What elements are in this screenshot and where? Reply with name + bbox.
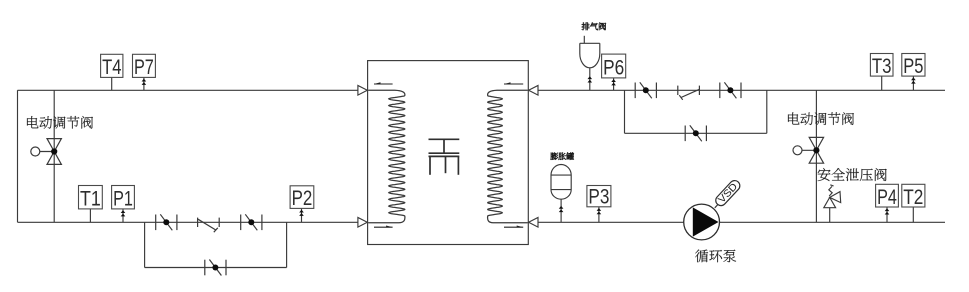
air vent arrow [588, 76, 593, 79]
label 排气阀 [582, 23, 606, 31]
butterfly valve V2 (bottom-left) [241, 214, 262, 230]
svg-text:T2: T2 [903, 185, 923, 209]
svg-text:P7: P7 [134, 55, 154, 79]
HE inlet arrow top-left [358, 86, 367, 96]
butterfly valve V5 (top-right) [720, 82, 741, 98]
instrument box P6 [602, 54, 626, 80]
wire P7 connector [143, 77, 145, 90]
svg-text:T1: T1 [80, 187, 101, 211]
HE flow arrow top-right [504, 83, 523, 85]
P2 arrow [299, 210, 304, 213]
svg-text:P6: P6 [603, 56, 624, 80]
instrument box T4 [101, 54, 123, 79]
svg-text:T4: T4 [102, 55, 121, 79]
wire P1 connector [122, 209, 124, 222]
wire bypass left drop [144, 222, 146, 267]
motor control valve (left) 电动调节阀 [31, 139, 62, 165]
instrument box T1 [79, 186, 103, 211]
instrument box P2 [290, 186, 314, 210]
wire P6 connector [613, 78, 615, 90]
pump VSD drive [714, 178, 743, 208]
wire left end connector [17, 90, 19, 222]
butterfly valve V4 (top-right) [635, 82, 656, 98]
wire top bypass left drop [624, 90, 626, 133]
air vent vessel 排气阀 [580, 36, 600, 91]
heat exchanger HE shell [368, 61, 529, 245]
motor control valve (right) 电动调节阀 [793, 137, 824, 163]
wire T3 connector [881, 76, 883, 90]
label 安全泄压阀 [818, 168, 887, 181]
label 循环泵 [695, 250, 736, 263]
svg-text:P2: P2 [292, 186, 313, 210]
svg-text:P4: P4 [877, 185, 897, 209]
HE right coil [488, 90, 528, 222]
wire P5 connector [912, 76, 914, 90]
label 电动调节阀 (right) [788, 112, 854, 125]
wire P3 connector [598, 207, 600, 223]
P1 arrow [121, 210, 126, 213]
instrument box T2 [902, 184, 925, 209]
P7 arrow [142, 79, 147, 82]
svg-text:P3: P3 [588, 185, 609, 209]
wire top bypass right drop [766, 90, 768, 133]
wire top bypass bottom run [625, 132, 767, 134]
circulation pump 循环泵 [684, 204, 720, 240]
svg-text:P5: P5 [903, 54, 923, 78]
HE left coil [368, 90, 405, 222]
P4 arrow [885, 208, 890, 211]
instrument box P3 [587, 185, 611, 209]
wire bypass right drop [286, 222, 288, 267]
wire bypass bottom run [145, 267, 287, 269]
check valve (bottom-left) [198, 218, 220, 233]
instrument box P1 [112, 186, 135, 211]
wire P4 connector [886, 207, 888, 222]
wire bottom pipe left segment [18, 221, 359, 223]
wire bottom pipe right segment [537, 221, 945, 223]
HE flow arrow top-left [374, 83, 393, 85]
wire left control valve riser [53, 90, 55, 222]
HE inlet arrow bottom-left [358, 218, 367, 228]
wire P2 connector [301, 208, 303, 222]
label 膨胀罐 [551, 153, 574, 160]
instrument box P5 [902, 54, 925, 78]
wire top pipe right segment [537, 89, 945, 91]
wire right control valve riser [815, 90, 817, 222]
HE inlet arrow bottom-right [529, 218, 538, 228]
expansion tank arrow [559, 206, 564, 209]
HE flow arrow bottom-right [504, 226, 523, 228]
label 电动调节阀 (left) [27, 116, 93, 129]
HE text label [429, 139, 460, 175]
instrument box P7 [133, 54, 156, 79]
wire T4 connector [111, 77, 113, 90]
butterfly valve V6 (bypass top-right) [685, 125, 706, 141]
wire top pipe left segment [18, 89, 359, 91]
safety relief valve 安全泄压阀 [824, 185, 841, 223]
HE inlet arrow top-right [529, 86, 538, 96]
P6 arrow [611, 79, 616, 82]
HE flow arrow bottom-left [374, 226, 393, 228]
svg-text:P1: P1 [113, 187, 133, 211]
wire T2 connector [912, 207, 914, 222]
wire T1 connector [89, 209, 91, 222]
butterfly valve V1 (bottom-left) [156, 214, 177, 230]
expansion tank 膨胀罐 [551, 165, 571, 223]
svg-text:T3: T3 [872, 54, 892, 78]
instrument box T3 [870, 54, 893, 78]
P5 arrow [911, 77, 916, 80]
instrument box P4 [876, 184, 899, 209]
check valve (top-right) [678, 86, 700, 100]
P3 arrow [597, 208, 602, 211]
butterfly valve V3 (bypass bottom-left) [205, 260, 226, 276]
